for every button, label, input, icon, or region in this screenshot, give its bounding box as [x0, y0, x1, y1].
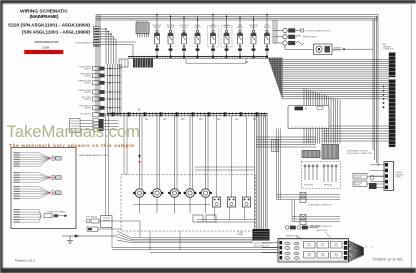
- svg-text:SWITCH: SWITCH: [84, 99, 91, 101]
- solenoid S4: [184, 114, 197, 214]
- svg-text:SHUT: SHUT: [334, 245, 338, 247]
- svg-text:STARTER RELAY: STARTER RELAY: [303, 36, 317, 39]
- wire bundle to engine ECM: [255, 114, 268, 230]
- connector J2 left comb: [133, 59, 153, 68]
- svg-text:713686: 713686: [42, 47, 50, 49]
- connector engine harness strip: [370, 162, 394, 191]
- wire bundle J2 to cab harness connector (stair): [269, 58, 389, 99]
- relay row labels: [153, 24, 271, 29]
- aux base connector 1: [277, 193, 341, 207]
- dashed enclosures around K5 K6: [208, 26, 233, 48]
- dashed ACD option box: [302, 162, 341, 189]
- svg-text:LAMP MODULE: LAMP MODULE: [136, 20, 149, 23]
- wire bundle lower to cab connector: [322, 126, 389, 141]
- relay E246.5: [243, 116, 251, 220]
- svg-text:DIODE: DIODE: [264, 25, 269, 27]
- connector J3 box: [288, 106, 329, 129]
- switch group box: [70, 119, 81, 133]
- sensor small parts: [370, 176, 374, 180]
- svg-text:ACCESSORY: ACCESSORY: [317, 229, 328, 232]
- solenoid S5: [199, 114, 212, 214]
- wires from connector C1: [100, 29, 136, 64]
- arrow and test point on solenoid feed: [138, 155, 140, 159]
- wire ring bus right verticals: [373, 15, 378, 166]
- wire fan to taillight connector: [14, 173, 50, 183]
- relay row K1-K9: [155, 16, 270, 57]
- diode D1: [75, 235, 78, 238]
- switch group rows: [80, 119, 118, 122]
- svg-text:(PRINTED FEBRUARY 2006): (PRINTED FEBRUARY 2006): [35, 41, 59, 44]
- headlight relay pair: [285, 224, 322, 229]
- junction dots C1: [105, 28, 112, 35]
- wire ring bus left verticals: [96, 15, 100, 114]
- wire fan to rear harness: [14, 210, 41, 223]
- inline fuse F1: [272, 140, 279, 152]
- starter box: [314, 44, 374, 55]
- svg-text:SWITCH: SWITCH: [264, 27, 271, 29]
- svg-text:MAINFRAME HARNESS 71586: MAINFRAME HARNESS 71586: [79, 154, 109, 157]
- svg-text:SWITCH: SWITCH: [84, 68, 91, 70]
- svg-text:(MAINFRAME): (MAINFRAME): [30, 14, 59, 20]
- starter relay: [283, 35, 318, 39]
- svg-text:WIRING SCHEMATIC: WIRING SCHEMATIC: [20, 9, 68, 15]
- dashed engine compartment box: [121, 175, 256, 231]
- temp sender: [87, 227, 122, 231]
- wires stack to ring: [273, 31, 314, 50]
- fuse panel callouts: [296, 232, 331, 239]
- fuse panel right pins: [344, 241, 348, 260]
- svg-text:TO THE: TO THE: [237, 232, 243, 234]
- aux feed verticals: [277, 129, 281, 200]
- svg-text:The watermark only appears on: The watermark only appears on this sampl…: [9, 143, 134, 149]
- solenoid S1: [133, 114, 146, 214]
- svg-text:FUEL SHUT: FUEL SHUT: [153, 25, 162, 27]
- connector ACD comb A: [302, 151, 320, 158]
- module M1 lamp control: [136, 20, 149, 37]
- wire fan to worklight connector: [14, 187, 50, 199]
- svg-text:J1: J1: [138, 108, 141, 112]
- svg-text:702800 (2-6-06): 702800 (2-6-06): [373, 257, 403, 261]
- fuel sender: [86, 217, 140, 237]
- fuse panel box: [278, 239, 349, 263]
- solenoid S2: [151, 114, 164, 214]
- bottom bus wires: [112, 247, 279, 250]
- wires to ACD from center: [256, 137, 316, 147]
- wire bundle fan to engine: [117, 231, 253, 243]
- wire ring bus top: [96, 15, 378, 20]
- svg-text:TakeManuals.com: TakeManuals.com: [7, 122, 141, 141]
- component WASHER PUMP: [78, 80, 121, 85]
- svg-text:SWITCH: SWITCH: [154, 27, 161, 29]
- component aux switch row: [80, 112, 121, 117]
- svg-text:SWITCH: SWITCH: [223, 27, 230, 29]
- sensor box air filter: [353, 181, 367, 187]
- fork pins group A: [304, 165, 318, 181]
- wires J1 to engine box: [124, 114, 127, 176]
- svg-text:GLOW PLUG RELAY (DEUTZ T2): GLOW PLUG RELAY (DEUTZ T2): [305, 29, 331, 32]
- connector engine ECM: [253, 229, 270, 241]
- svg-text:(S/N A5GL11001 - A5GL19999): (S/N A5GL11001 - A5GL19999): [22, 30, 90, 36]
- svg-text:SOLENOID: SOLENOID: [354, 177, 363, 179]
- magenta marker dot: [48, 157, 50, 159]
- 12V outlet: [101, 216, 113, 228]
- connector cab harness strip: [389, 53, 396, 148]
- svg-text:SHUT: SHUT: [321, 245, 325, 247]
- connector J1 bar: [107, 114, 268, 116]
- left column bus verticals: [108, 64, 122, 114]
- relay E216.5: [213, 116, 221, 220]
- svg-text:FUEL SHUTOFF: FUEL SHUTOFF: [354, 175, 365, 177]
- svg-text:DEVICE (ACD) CONNECTORS: DEVICE (ACD) CONNECTORS: [347, 152, 373, 155]
- connector J2 bar: [128, 57, 268, 59]
- fork pins group B: [323, 165, 337, 183]
- svg-text:Printed In U.S.A.: Printed In U.S.A.: [15, 258, 36, 262]
- svg-text:SWITCH: SWITCH: [84, 108, 91, 110]
- connector C1 front harness: [94, 27, 101, 47]
- engine box feed wires: [197, 220, 255, 223]
- solenoid tie wire: [133, 204, 210, 206]
- component SEAT SENSOR: [79, 105, 121, 110]
- svg-text:GLOW PLUG: GLOW PLUG: [179, 25, 189, 27]
- sensor box fuel shutoff: [353, 174, 367, 180]
- junction dots cab feed: [383, 86, 385, 109]
- fuse ovals: [285, 242, 299, 259]
- svg-text:HEADLIGHT SW: HEADLIGHT SW: [286, 235, 299, 238]
- svg-text:SWITCH: SWITCH: [237, 27, 244, 29]
- solenoid S3: [168, 114, 181, 214]
- wire fan to headlight connector: [14, 153, 50, 166]
- glow plug relay: [283, 28, 331, 32]
- svg-text:SHUT: SHUT: [307, 245, 311, 247]
- title text: [8, 9, 90, 36]
- svg-text:SWITCH: SWITCH: [84, 92, 91, 94]
- aux base connector 2: [292, 215, 340, 229]
- svg-text:MOTOR: MOTOR: [334, 50, 341, 52]
- wires mid horizontal pair: [195, 167, 255, 170]
- svg-text:FUEL: FUEL: [321, 243, 325, 245]
- fusible link: [283, 41, 304, 45]
- svg-text:SWITCH: SWITCH: [354, 185, 360, 187]
- svg-text:FUEL: FUEL: [307, 243, 311, 245]
- svg-text:SWITCH: SWITCH: [167, 27, 174, 29]
- svg-text:SWITCH: SWITCH: [210, 27, 217, 29]
- fuse panel left leads: [262, 243, 280, 253]
- rear harness inline component: [44, 210, 67, 217]
- svg-text:ENGINE: ENGINE: [237, 234, 243, 236]
- red printable-version banner: [24, 50, 63, 54]
- svg-text:S220 (S/N A5GK11001 - A5GK1999: S220 (S/N A5GK11001 - A5GK19999): [8, 22, 90, 28]
- junction squares on J2: [156, 56, 268, 59]
- component REAR WIPER: [80, 72, 121, 77]
- component box left of J2 comb: [119, 59, 128, 67]
- magenta marker dot: [48, 176, 50, 178]
- svg-text:CONN: CONN: [396, 177, 402, 179]
- svg-text:AUX SWITCH: AUX SWITCH: [80, 112, 91, 115]
- svg-text:TO AUX BASE CONNECTOR: TO AUX BASE CONNECTOR: [308, 203, 333, 206]
- component FRONT WIPER: [79, 66, 121, 70]
- component HVAC BLOWER: [79, 89, 121, 94]
- fuse panel cells: [304, 242, 343, 259]
- wire bundle down to ACD: [304, 88, 340, 144]
- engine box small modules: [193, 215, 203, 222]
- wire bundle fan from fuse panel: [349, 241, 364, 261]
- magenta marker dot: [48, 192, 50, 194]
- ground G1: [62, 236, 117, 243]
- pin number marks under J1: [145, 118, 256, 121]
- svg-text:FUEL: FUEL: [334, 243, 338, 245]
- svg-text:SWITCH: SWITCH: [250, 27, 257, 29]
- wire under J2: [186, 59, 246, 63]
- fuse panel left pins: [280, 241, 283, 259]
- svg-text:FUEL SENDER: FUEL SENDER: [86, 217, 98, 219]
- component FUEL PUMP: [81, 97, 121, 101]
- svg-text:SWITCH: SWITCH: [84, 83, 91, 85]
- svg-text:CONNECTOR: CONNECTOR: [383, 49, 395, 51]
- svg-text:SWITCH: SWITCH: [84, 75, 91, 77]
- mainframe harness lamp box: [11, 148, 76, 229]
- svg-text:ECU CONNECTOR: ECU CONNECTOR: [254, 245, 270, 247]
- connector ACD comb B: [322, 145, 339, 160]
- svg-text:Printable Version Click Here: Printable Version Click Here: [27, 51, 62, 54]
- svg-text:SWITCH: SWITCH: [194, 27, 201, 29]
- relay E231.5: [228, 116, 236, 220]
- svg-text:SWITCH: SWITCH: [181, 27, 188, 29]
